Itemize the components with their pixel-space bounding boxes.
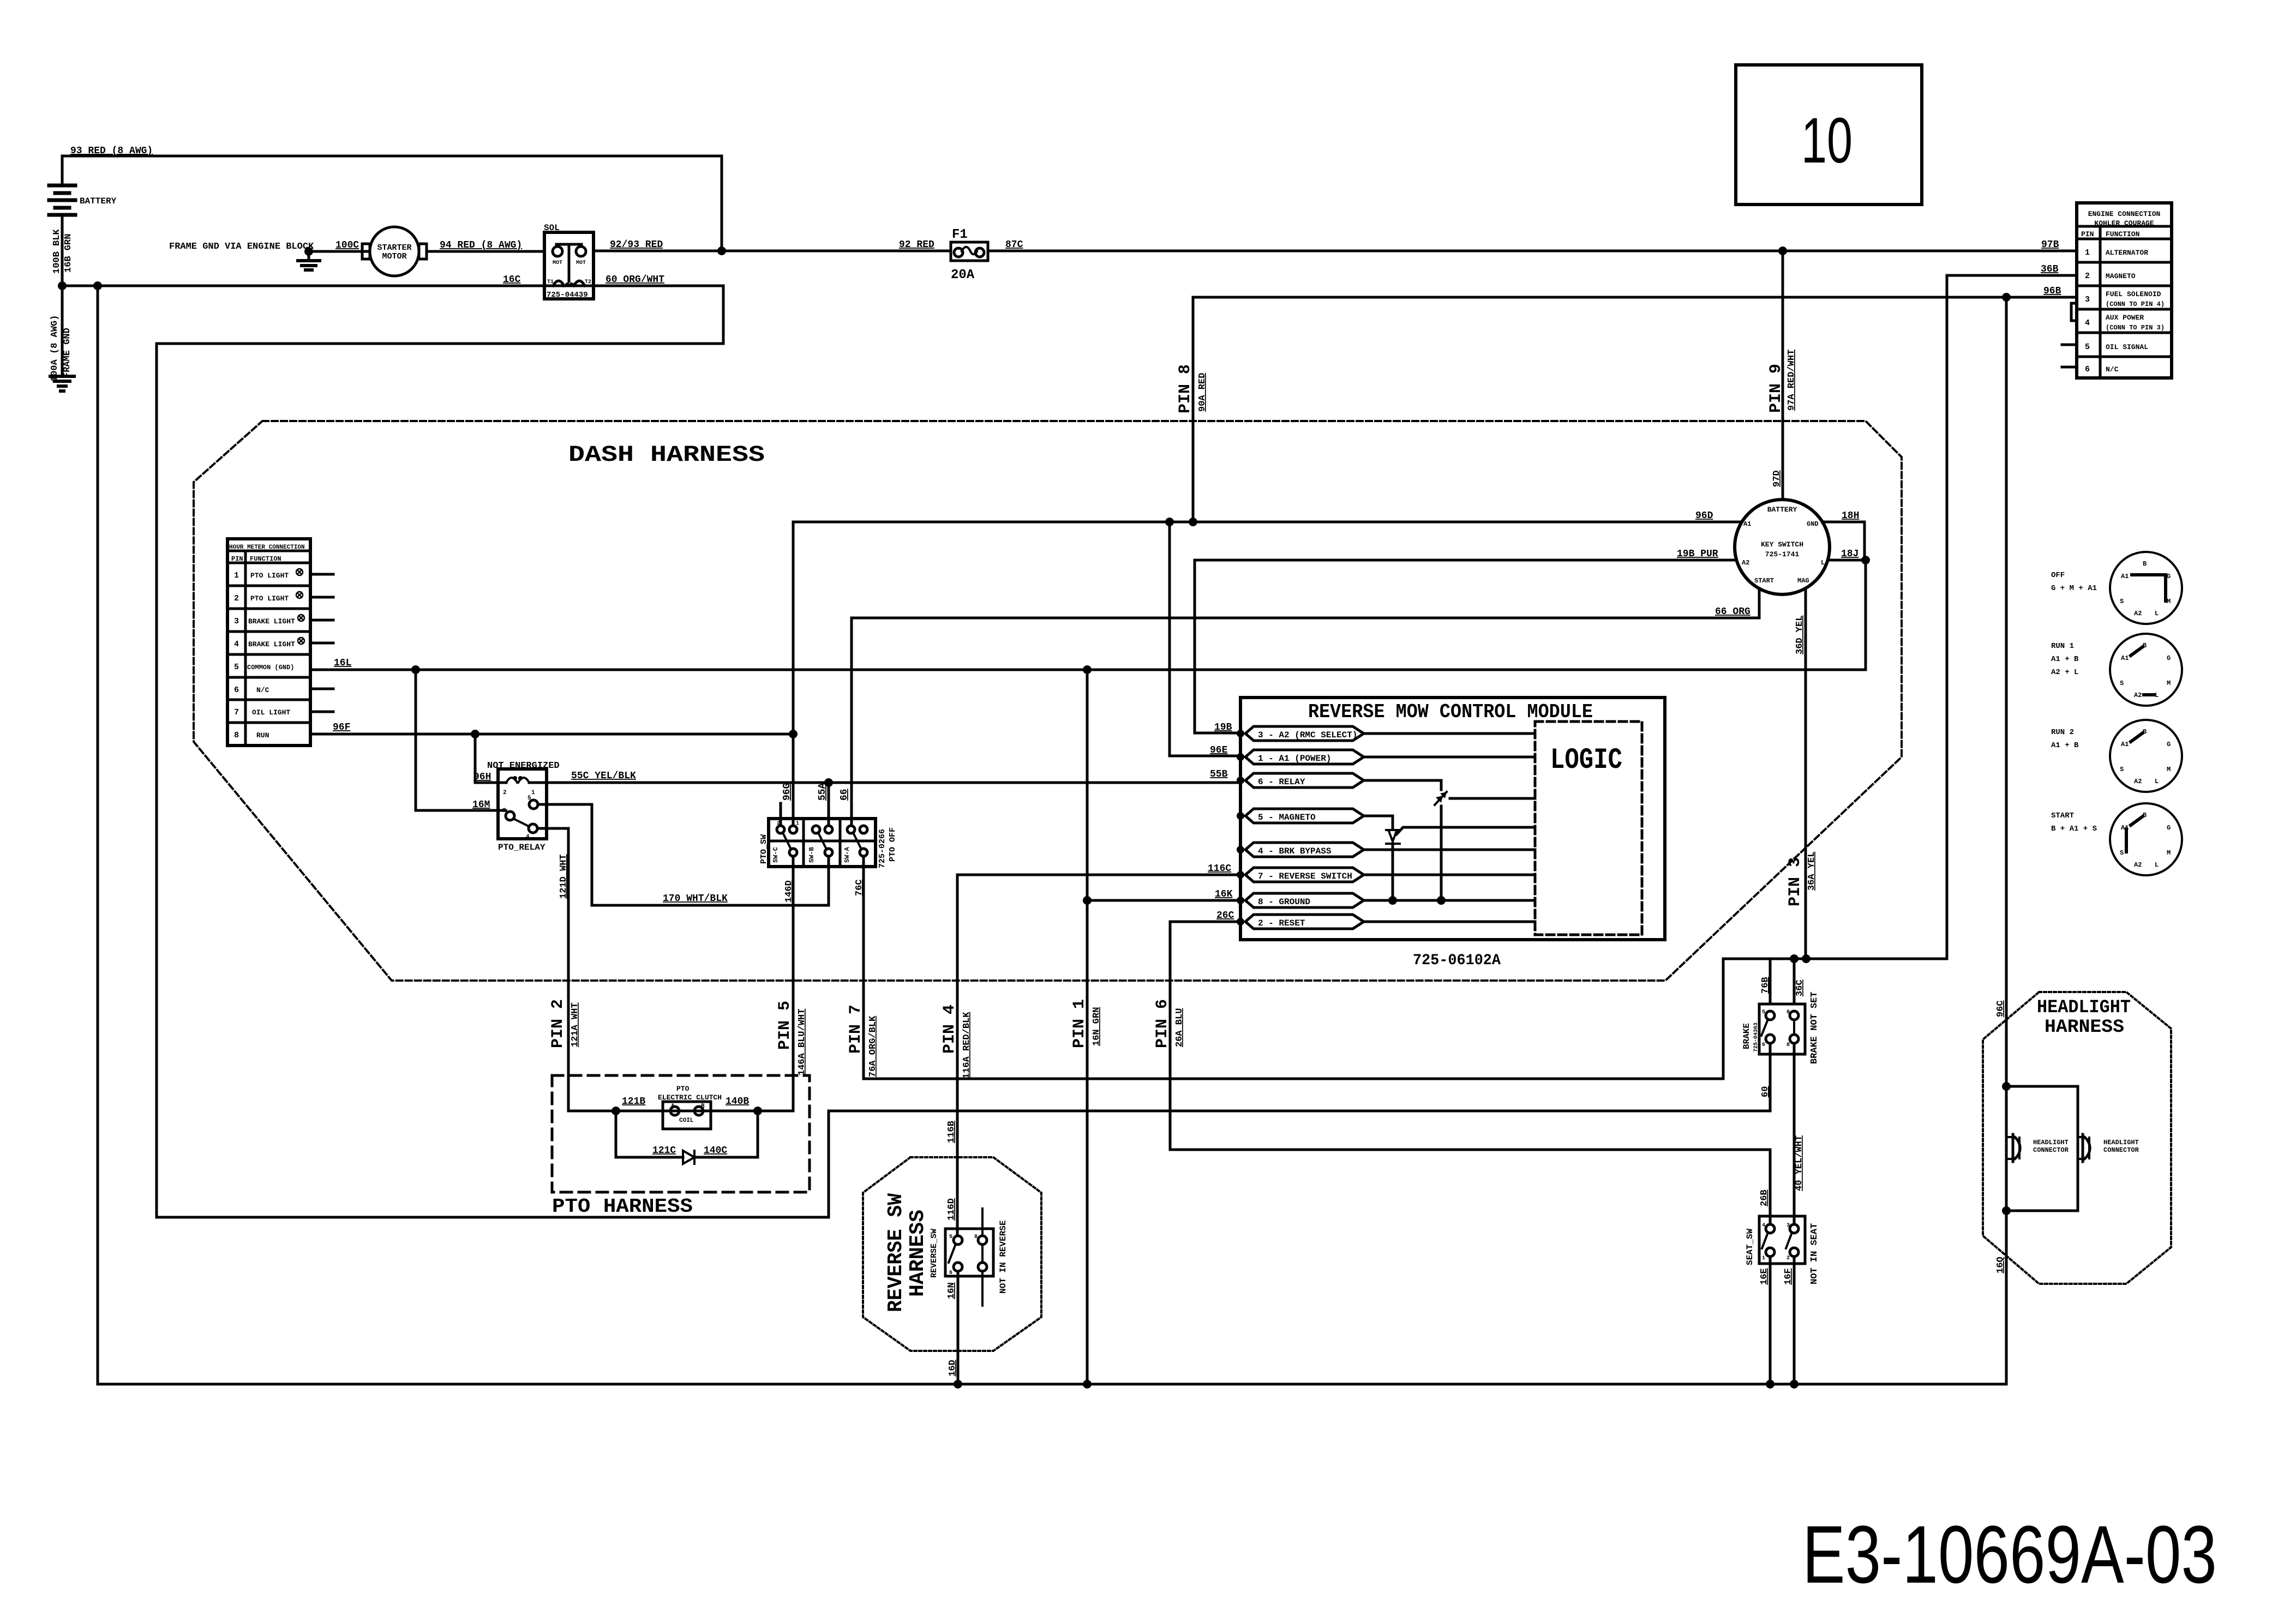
svg-text:S: S <box>2120 766 2124 773</box>
svg-text:116B: 116B <box>946 1121 957 1143</box>
svg-text:20A: 20A <box>951 268 975 282</box>
ground frame gnd symbol <box>50 376 74 391</box>
svg-text:40 YEL/WHT: 40 YEL/WHT <box>1794 1135 1805 1191</box>
wire 96C 16Q headlight feed and ground <box>1995 297 2006 1384</box>
svg-text:A: A <box>671 1103 675 1110</box>
headlight harness octagon <box>1983 992 2171 1284</box>
left ground rail wire and bottom ground bus <box>98 286 2006 1384</box>
wire 76C PIN 7 76A ORG/BLK PTO switch to brake circuit <box>847 856 1723 1079</box>
svg-text:16K: 16K <box>1215 889 1233 900</box>
svg-text:2: 2 <box>777 821 780 827</box>
svg-text:90A RED: 90A RED <box>1197 373 1208 412</box>
svg-text:55A: 55A <box>817 783 828 801</box>
svg-text:SW-B: SW-B <box>808 847 816 863</box>
reverse switch <box>930 1209 1008 1306</box>
PTO harness dashed box <box>552 1075 810 1192</box>
wire 16N 16D reverse switch to ground bus <box>946 1271 958 1384</box>
svg-text:RUN 2: RUN 2 <box>2051 728 2074 737</box>
svg-text:NOT IN REVERSE: NOT IN REVERSE <box>998 1221 1008 1294</box>
svg-text:START: START <box>1754 577 1774 585</box>
wire 19B PUR key switch A2 to module <box>1195 549 1736 733</box>
svg-text:96D: 96D <box>1695 510 1713 521</box>
svg-text:36D YEL: 36D YEL <box>1795 616 1805 654</box>
wire 87C 97B fuse to engine connector pin 1 <box>988 250 2077 253</box>
svg-text:60 ORG/WHT: 60 ORG/WHT <box>606 274 664 285</box>
svg-text:116D: 116D <box>946 1198 957 1221</box>
svg-text:PIN: PIN <box>2081 230 2094 238</box>
svg-text:96G: 96G <box>782 783 793 801</box>
svg-text:KOHLER COURAGE: KOHLER COURAGE <box>2094 219 2154 227</box>
svg-text:19B: 19B <box>1214 722 1232 733</box>
svg-text:RUN: RUN <box>256 731 269 740</box>
module flag 1 A1 POWER <box>1237 750 1535 764</box>
svg-text:A1 + B: A1 + B <box>2051 741 2079 750</box>
svg-text:26C: 26C <box>1216 910 1234 921</box>
module flag 4 BRK BYPASS <box>1237 843 1535 857</box>
svg-text:A1 + B: A1 + B <box>2051 655 2079 664</box>
svg-text:L: L <box>2155 692 2159 699</box>
svg-text:16M: 16M <box>472 800 490 810</box>
junction reverse switch ground <box>954 1380 962 1388</box>
svg-text:725-04439: 725-04439 <box>547 291 588 299</box>
ground engine block symbol <box>298 247 320 270</box>
svg-text:PTO_RELAY: PTO_RELAY <box>498 843 545 852</box>
junction PIN 8 to 96D <box>1189 518 1197 526</box>
svg-text:A1: A1 <box>2121 573 2129 580</box>
svg-text:PTO LIGHT: PTO LIGHT <box>250 572 289 580</box>
svg-text:REVERSE_SW: REVERSE_SW <box>930 1229 939 1278</box>
junction 96C tap <box>2002 293 2011 302</box>
svg-text:FUNCTION: FUNCTION <box>250 555 281 563</box>
svg-text:FRAME GND: FRAME GND <box>62 328 73 378</box>
svg-text:2: 2 <box>503 790 507 796</box>
svg-text:6: 6 <box>949 1270 952 1276</box>
svg-text:HEADLIGHT: HEADLIGHT <box>2033 1139 2069 1146</box>
svg-text:E3-10669A-03: E3-10669A-03 <box>1802 1508 2217 1600</box>
svg-text:HARNESS: HARNESS <box>906 1210 930 1297</box>
svg-text:M: M <box>2167 766 2171 773</box>
svg-text:1 - A1 (POWER): 1 - A1 (POWER) <box>1258 754 1331 764</box>
svg-text:60: 60 <box>1760 1086 1771 1097</box>
reverse mow control module box <box>1240 698 1665 940</box>
junction 96E tap <box>1165 518 1174 526</box>
svg-text:1: 1 <box>1762 1255 1765 1261</box>
junction headlight bottom <box>2002 1206 2011 1215</box>
svg-text:18H: 18H <box>1842 510 1859 521</box>
wire 93 RED battery positive to solenoid output node <box>62 146 722 251</box>
logic block dashed <box>1535 722 1642 935</box>
svg-text:1: 1 <box>531 790 535 796</box>
svg-text:8: 8 <box>234 731 239 740</box>
svg-text:97B: 97B <box>2041 239 2059 250</box>
svg-text:4: 4 <box>234 640 239 649</box>
svg-text:FUNCTION: FUNCTION <box>2106 230 2139 238</box>
svg-text:BRAKE LIGHT: BRAKE LIGHT <box>248 640 295 648</box>
svg-text:M: M <box>2167 849 2171 857</box>
svg-text:2: 2 <box>2085 272 2090 281</box>
svg-text:121B: 121B <box>622 1096 645 1107</box>
svg-text:116A RED/BLK: 116A RED/BLK <box>962 1012 972 1079</box>
wire 18J key switch L <box>1828 549 1866 560</box>
wire 146D PIN 5 146A BLU/WHT PTO switch to clutch <box>776 856 807 1111</box>
wire 100A frame ground drop <box>61 286 64 376</box>
svg-text:CONNECTOR: CONNECTOR <box>2033 1146 2069 1154</box>
svg-text:BRAKE NOT SET: BRAKE NOT SET <box>1809 991 1820 1064</box>
svg-text:COIL: COIL <box>679 1117 694 1124</box>
wire 96G PTO switch feed <box>792 522 795 826</box>
svg-text:REVERSE SW: REVERSE SW <box>884 1193 908 1312</box>
svg-text:76C: 76C <box>854 879 865 896</box>
svg-text:L: L <box>2155 861 2159 869</box>
wire 36D YEL PIN 3 36A YEL key switch MAG down <box>1805 588 1807 959</box>
svg-text:SW-C: SW-C <box>772 847 780 863</box>
wire 26C module reset to PIN 6 <box>1170 910 1770 1224</box>
svg-text:5 - MAGNETO: 5 - MAGNETO <box>1258 813 1316 822</box>
svg-text:S: S <box>2120 598 2124 605</box>
svg-text:A2: A2 <box>2134 692 2142 699</box>
junction 96F to 96G <box>789 730 798 738</box>
module flag 3 A2 RMC SELECT <box>1237 726 1535 741</box>
svg-text:ENGINE CONNECTION: ENGINE CONNECTION <box>2088 210 2161 218</box>
box 10 page reference <box>1736 65 1922 205</box>
svg-text:A2: A2 <box>2134 861 2142 869</box>
svg-text:S: S <box>2120 849 2124 857</box>
svg-text:94 RED (8 AWG): 94 RED (8 AWG) <box>440 240 522 251</box>
svg-text:OFF: OFF <box>2051 571 2065 580</box>
svg-text:146A BLU/WHT: 146A BLU/WHT <box>797 1009 807 1075</box>
svg-text:PIN 7: PIN 7 <box>847 1005 865 1054</box>
svg-text:HOUR METER CONNECTION: HOUR METER CONNECTION <box>229 544 305 551</box>
wire 60 brake switch to solenoid coil return <box>157 1043 1771 1217</box>
svg-text:100C: 100C <box>335 240 359 251</box>
svg-text:PIN 3: PIN 3 <box>1786 857 1805 906</box>
svg-text:OIL LIGHT: OIL LIGHT <box>252 708 290 717</box>
svg-text:6 - RELAY: 6 - RELAY <box>1258 777 1305 787</box>
junction 16M tap <box>411 665 420 674</box>
svg-text:AUX POWER: AUX POWER <box>2106 314 2144 322</box>
svg-text:55C YEL/BLK: 55C YEL/BLK <box>571 771 636 782</box>
svg-text:PTO: PTO <box>676 1085 690 1093</box>
PTO switch 725-0266 <box>759 803 897 868</box>
wire clutch feed 121B to 140B <box>616 1110 793 1113</box>
wire 66 ORG key switch START to PTO switch <box>852 588 1759 826</box>
wire 92/93 RED solenoid to fuse <box>594 250 951 253</box>
svg-text:140C: 140C <box>704 1145 727 1156</box>
wire 16K module ground <box>1083 889 1240 905</box>
svg-text:26B: 26B <box>1759 1189 1770 1206</box>
svg-text:M: M <box>2167 598 2171 605</box>
svg-text:A2: A2 <box>2134 778 2142 785</box>
svg-text:96F: 96F <box>333 722 350 733</box>
svg-text:7: 7 <box>234 708 239 717</box>
wire 16C ground bus from battery through solenoid coil <box>62 286 723 1217</box>
svg-text:ALTERNATOR: ALTERNATOR <box>2106 249 2148 257</box>
svg-text:HARNESS: HARNESS <box>2045 1017 2124 1038</box>
svg-text:MOTOR: MOTOR <box>382 252 406 261</box>
svg-text:4 - BRK BYPASS: 4 - BRK BYPASS <box>1258 846 1332 856</box>
svg-text:2 - RESET: 2 - RESET <box>1258 918 1305 928</box>
svg-text:6: 6 <box>1762 1042 1765 1048</box>
svg-text:5: 5 <box>2085 342 2090 352</box>
junction battery negative node <box>58 281 67 290</box>
svg-text:A1: A1 <box>2121 741 2129 748</box>
svg-text:6: 6 <box>234 686 239 695</box>
svg-text:16D: 16D <box>948 1360 958 1376</box>
svg-text:19B PUR: 19B PUR <box>1677 549 1718 560</box>
svg-text:8: 8 <box>1787 1009 1790 1015</box>
svg-text:170 WHT/BLK: 170 WHT/BLK <box>663 893 728 904</box>
svg-text:T2: T2 <box>585 279 591 285</box>
junction 96H tap <box>471 730 479 738</box>
svg-text:121A WHT: 121A WHT <box>570 1002 580 1047</box>
svg-text:16E: 16E <box>1759 1268 1770 1285</box>
svg-text:BATTERY: BATTERY <box>80 196 117 206</box>
svg-text:START: START <box>2051 812 2074 820</box>
svg-text:96E: 96E <box>1210 745 1228 756</box>
svg-text:146D: 146D <box>784 880 794 903</box>
svg-text:G: G <box>2167 741 2171 748</box>
svg-text:5: 5 <box>234 663 239 672</box>
wire 36B engine pin 2 magneto <box>1947 264 2077 959</box>
svg-text:PTO LIGHT: PTO LIGHT <box>250 594 289 603</box>
svg-text:A1: A1 <box>2121 654 2129 662</box>
svg-text:PIN 1: PIN 1 <box>1070 999 1089 1048</box>
wire PIN 4 116A RED/BLK to reverse switch <box>940 875 972 1236</box>
svg-text:STARTER: STARTER <box>377 243 411 253</box>
svg-text:16B GRN: 16B GRN <box>63 234 74 273</box>
svg-text:4: 4 <box>526 834 530 840</box>
svg-text:96C: 96C <box>1995 1000 2006 1017</box>
wire 94 RED starter to solenoid <box>427 250 544 253</box>
key position diagram RUN 1 <box>2051 634 2182 706</box>
svg-text:KEY SWITCH: KEY SWITCH <box>1761 540 1803 549</box>
svg-text:PTO HARNESS: PTO HARNESS <box>552 1195 693 1218</box>
svg-text:66 ORG: 66 ORG <box>1715 606 1751 617</box>
svg-text:(CONN TO PIN 4): (CONN TO PIN 4) <box>2106 300 2165 308</box>
svg-text:L: L <box>2155 778 2159 785</box>
svg-text:1: 1 <box>796 821 799 827</box>
svg-text:93 RED (8 AWG): 93 RED (8 AWG) <box>70 146 153 157</box>
svg-text:3: 3 <box>1787 1223 1790 1229</box>
svg-text:PIN 6: PIN 6 <box>1153 999 1172 1048</box>
svg-text:L: L <box>2155 610 2159 617</box>
headlight connector right <box>2078 1134 2139 1162</box>
svg-text:A2: A2 <box>1742 559 1749 567</box>
seat switch <box>1745 1216 1820 1284</box>
svg-text:16N GRN: 16N GRN <box>1092 1007 1102 1046</box>
svg-text:REVERSE MOW CONTROL MODULE: REVERSE MOW CONTROL MODULE <box>1308 701 1593 723</box>
svg-text:A2 + L: A2 + L <box>2051 668 2078 677</box>
svg-text:G: G <box>2167 824 2171 832</box>
svg-text:RUN 1: RUN 1 <box>2051 642 2074 651</box>
junction 140B node <box>753 1107 762 1115</box>
wire 100C ground to starter motor <box>309 250 369 253</box>
wire key switch ground return to 16L <box>1865 560 1867 670</box>
svg-text:PTO OFF: PTO OFF <box>888 827 897 862</box>
wire PIN 8 90A RED <box>1192 297 1195 522</box>
wire 16F seat switch ground <box>1783 1257 1794 1384</box>
svg-text:16L: 16L <box>334 658 351 669</box>
SCR magneto kill <box>1386 827 1535 844</box>
svg-text:LOGIC: LOGIC <box>1550 744 1622 777</box>
junction 16F ground <box>1790 1380 1799 1388</box>
svg-text:76A ORG/BLK: 76A ORG/BLK <box>868 1015 878 1077</box>
svg-text:FRAME GND VIA ENGINE BLOCK: FRAME GND VIA ENGINE BLOCK <box>169 242 314 252</box>
wire PIN 9 97A RED/WHT to key switch battery <box>1782 251 1784 500</box>
svg-text:MAG: MAG <box>1797 577 1809 585</box>
junction solenoid output and battery feed <box>717 247 726 255</box>
junction 16E ground <box>1766 1380 1775 1388</box>
wire 16L common ground bus <box>310 658 1866 670</box>
svg-text:36C: 36C <box>1795 979 1805 996</box>
svg-text:PIN 4: PIN 4 <box>940 1005 959 1054</box>
svg-text:1: 1 <box>234 571 239 580</box>
svg-text:725-06102A: 725-06102A <box>1413 952 1501 969</box>
svg-text:BRAKE LIGHT: BRAKE LIGHT <box>248 617 295 626</box>
junction 121B node <box>612 1107 620 1115</box>
svg-text:G: G <box>2167 573 2171 580</box>
wire 55A to PTO switch <box>828 783 830 826</box>
wire 36C to brake switch <box>1794 959 1805 1004</box>
transistor relay driver <box>1435 792 1447 805</box>
svg-text:G + M + A1: G + M + A1 <box>2051 584 2097 593</box>
svg-text:B: B <box>2143 560 2147 568</box>
dash harness octagon boundary <box>194 421 1902 981</box>
svg-text:MOT: MOT <box>576 260 586 266</box>
svg-text:725-0266: 725-0266 <box>878 829 887 868</box>
svg-text:3: 3 <box>234 617 239 626</box>
svg-text:5: 5 <box>527 795 531 802</box>
engine connection table KOHLER COURAGE <box>2062 203 2172 378</box>
svg-text:CONNECTOR: CONNECTOR <box>2103 1146 2139 1154</box>
svg-text:GND: GND <box>1807 520 1819 528</box>
svg-text:2: 2 <box>234 594 239 603</box>
svg-text:L: L <box>1821 559 1825 567</box>
svg-text:5: 5 <box>1762 1009 1765 1015</box>
svg-text:HEADLIGHT: HEADLIGHT <box>2103 1139 2139 1146</box>
svg-text:F1: F1 <box>952 227 968 242</box>
svg-text:B: B <box>701 1103 705 1110</box>
wire 96E module A1 power <box>1170 522 1240 756</box>
brake switch <box>1742 991 1820 1064</box>
svg-text:HEADLIGHT: HEADLIGHT <box>2037 997 2131 1018</box>
hour meter connection table <box>227 539 333 746</box>
svg-text:100B BLK: 100B BLK <box>52 229 62 274</box>
svg-text:16F: 16F <box>1783 1268 1794 1285</box>
key position diagram RUN 2 <box>2051 720 2182 792</box>
wire 16E seat switch ground <box>1759 1257 1770 1384</box>
svg-text:16N: 16N <box>946 1282 957 1299</box>
svg-text:3: 3 <box>2085 295 2090 304</box>
svg-text:8 - GROUND: 8 - GROUND <box>1258 897 1310 907</box>
svg-text:2: 2 <box>1787 1255 1790 1261</box>
fuse F1 20A <box>951 227 988 282</box>
wire 96H to PTO relay coil <box>473 734 498 783</box>
headlight connector left <box>2006 1134 2069 1162</box>
svg-text:16C: 16C <box>503 274 521 285</box>
svg-text:MAGNETO: MAGNETO <box>2106 272 2136 280</box>
wire 96D key switch A1 feed <box>793 510 1742 522</box>
reverse sw harness octagon <box>863 1157 1041 1351</box>
wire 121D WHT PIN 2 121A WHT relay NC to clutch <box>537 828 616 1111</box>
wire 96B 90A RED fuel solenoid feed <box>1193 286 2077 297</box>
svg-text:M: M <box>2167 680 2171 687</box>
svg-text:PIN 9: PIN 9 <box>1767 364 1785 413</box>
svg-text:4: 4 <box>2085 318 2090 328</box>
PTO electric clutch <box>658 1085 722 1129</box>
key switch 725-1741 <box>1735 500 1830 594</box>
starter motor <box>362 227 427 276</box>
svg-text:NOT IN SEAT: NOT IN SEAT <box>1809 1223 1820 1284</box>
svg-text:S: S <box>2120 680 2124 687</box>
svg-text:66: 66 <box>839 789 850 801</box>
wire PIN 1 16N GRN ground drop <box>1070 670 1102 1384</box>
svg-text:96B: 96B <box>2043 286 2061 297</box>
svg-text:121D WHT: 121D WHT <box>559 854 569 899</box>
junction 55A tap <box>824 778 833 787</box>
svg-text:121C: 121C <box>652 1145 676 1156</box>
svg-text:1: 1 <box>2085 248 2090 257</box>
svg-text:PIN 8: PIN 8 <box>1176 364 1195 413</box>
svg-text:A2: A2 <box>2134 610 2142 617</box>
svg-text:COMMON (GND): COMMON (GND) <box>247 664 294 671</box>
svg-text:55B: 55B <box>1210 769 1228 780</box>
wire headlight loop <box>2006 1086 2078 1211</box>
svg-text:76B: 76B <box>1760 977 1771 994</box>
svg-text:100A (8 AWG): 100A (8 AWG) <box>50 315 60 382</box>
svg-text:87C: 87C <box>1005 239 1023 250</box>
svg-text:92/93 RED: 92/93 RED <box>610 239 663 250</box>
svg-text:SEAT_SW: SEAT_SW <box>1745 1228 1755 1265</box>
svg-text:N/C: N/C <box>256 686 269 694</box>
wire 76B brake switch feed <box>1723 959 1947 1004</box>
svg-text:G: G <box>2167 654 2171 662</box>
svg-text:116C: 116C <box>1208 863 1231 874</box>
svg-text:FUEL SOLENOID: FUEL SOLENOID <box>2106 290 2161 298</box>
svg-text:36B: 36B <box>2041 264 2059 275</box>
svg-text:7 - REVERSE SWITCH: 7 - REVERSE SWITCH <box>1258 871 1352 881</box>
svg-text:16Q: 16Q <box>1995 1257 2006 1273</box>
svg-text:A1: A1 <box>1743 520 1751 528</box>
svg-text:8: 8 <box>974 1234 978 1240</box>
PTO relay <box>487 761 560 852</box>
svg-text:10: 10 <box>1801 105 1853 177</box>
svg-text:97D: 97D <box>1772 470 1782 487</box>
svg-text:3 - A2 (RMC SELECT): 3 - A2 (RMC SELECT) <box>1258 730 1357 740</box>
junction ground rail node <box>93 281 102 290</box>
svg-text:N/C: N/C <box>2106 365 2119 374</box>
svg-text:97A RED/WHT: 97A RED/WHT <box>1787 350 1797 411</box>
svg-text:BRAKE: BRAKE <box>1742 1023 1752 1049</box>
svg-text:18J: 18J <box>1841 549 1859 560</box>
diode clutch suppression <box>616 1111 758 1164</box>
svg-text:DASH HARNESS: DASH HARNESS <box>568 442 765 468</box>
module flag 6 RELAY <box>1237 773 1535 900</box>
svg-text:PTO_SW: PTO_SW <box>759 834 769 864</box>
svg-text:B + A1 + S: B + A1 + S <box>2051 825 2097 833</box>
junction headlight top <box>2002 1082 2011 1091</box>
svg-text:140B: 140B <box>726 1096 749 1107</box>
svg-text:BATTERY: BATTERY <box>1767 506 1797 514</box>
svg-text:725-1741: 725-1741 <box>1765 550 1800 558</box>
key position diagram OFF <box>2051 552 2182 624</box>
wire 55C YEL/BLK relay coil to module relay input <box>547 769 1240 783</box>
svg-text:36A YEL: 36A YEL <box>1807 852 1817 891</box>
junction PIN 9 tap <box>1778 247 1787 255</box>
junction PIN 3 node <box>1802 954 1811 963</box>
wire 116C module reverse switch input <box>957 863 1240 875</box>
wire 18H key switch GND <box>1823 510 1865 558</box>
